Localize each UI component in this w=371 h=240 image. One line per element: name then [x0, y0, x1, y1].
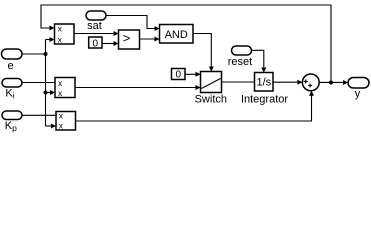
arrow into AND input 2	[155, 37, 160, 42]
wire P1 output to comparator input 1	[74, 33, 118, 35]
svg-text:y: y	[355, 88, 361, 100]
node e junction	[44, 52, 48, 56]
constant C1 value 0	[89, 37, 102, 49]
wire constant C2 to switch input 1	[185, 73, 200, 75]
product P3 (Kp x e)	[56, 111, 76, 131]
arrow into integrator reset top	[261, 68, 266, 73]
svg-text:e: e	[7, 60, 13, 72]
arrow into outport y	[343, 80, 348, 85]
wire e branch to P3 input 2	[46, 125, 56, 127]
arrow into P1 input 1	[50, 26, 55, 31]
wire AND output to switch control	[193, 34, 211, 71]
arrow into AND input 1	[155, 26, 160, 31]
wire integrator output to sum	[273, 81, 301, 83]
arrow into sum left	[297, 80, 302, 85]
arrow into switch input 3	[196, 85, 201, 90]
constant C2 value 0	[172, 69, 186, 81]
svg-text:x: x	[58, 34, 63, 44]
switch block	[195, 72, 227, 106]
arrowheads	[50, 26, 349, 129]
wire constant C1 to comparator input 2	[102, 43, 118, 45]
arrow into P2 input 2	[50, 90, 55, 95]
wire sum output to outport y	[319, 81, 347, 83]
wire e branch to P1 input 2	[46, 39, 54, 41]
svg-text:reset: reset	[228, 56, 252, 68]
wire P2 output to switch input 3	[75, 87, 200, 89]
inport Ki	[2, 79, 22, 101]
product P2 (Ki x e)	[55, 78, 75, 98]
sum block	[302, 74, 319, 91]
svg-text:x: x	[59, 111, 64, 121]
inport Kp	[2, 111, 22, 133]
svg-text:Switch: Switch	[195, 94, 227, 106]
inport reset	[228, 46, 252, 68]
svg-text:x: x	[59, 121, 64, 131]
outport y	[348, 78, 369, 101]
inport e	[2, 49, 23, 72]
arrow into switch input 1	[196, 72, 201, 77]
wire feedback from output junction to product P1 input 1	[41, 5, 331, 83]
svg-text:0: 0	[176, 70, 182, 81]
arrow into sum bottom	[309, 91, 314, 96]
arrow into comparator input 2	[114, 41, 119, 46]
arrow into comparator input 1	[114, 31, 119, 36]
svg-text:Integrator: Integrator	[241, 94, 288, 106]
logic AND	[160, 25, 194, 44]
arrow into P1 input 2	[50, 37, 55, 42]
svg-text:>: >	[123, 31, 131, 46]
svg-text:0: 0	[93, 38, 99, 49]
svg-text:sat: sat	[87, 20, 102, 32]
wire e branch to P2 input 2	[46, 92, 55, 94]
wire P3 output to sum bottom	[76, 92, 312, 121]
wire comparator output to AND input 2	[140, 38, 159, 40]
inport sat	[86, 11, 106, 32]
wire e output	[22, 53, 46, 55]
node e-Ki junction	[44, 91, 48, 95]
integrator block	[241, 73, 288, 106]
wire e vertical bus	[45, 40, 47, 127]
node output junction	[329, 81, 333, 85]
product P1 (e x y)	[55, 23, 75, 44]
svg-text:AND: AND	[165, 29, 188, 41]
svg-text:x: x	[58, 23, 63, 33]
wire Ki to P2 input 1	[22, 82, 56, 84]
junction dots	[44, 52, 334, 95]
wire Kp to P3 input 1	[22, 114, 57, 116]
arrow into switch control	[209, 67, 214, 72]
wire switch output to integrator	[222, 81, 256, 83]
svg-text:1/s: 1/s	[256, 77, 271, 89]
arrow into P3 input 2	[51, 124, 56, 129]
wire sat to AND input 1	[106, 16, 159, 29]
relational operator GT	[119, 30, 140, 49]
wire reset to integrator top	[252, 50, 264, 71]
